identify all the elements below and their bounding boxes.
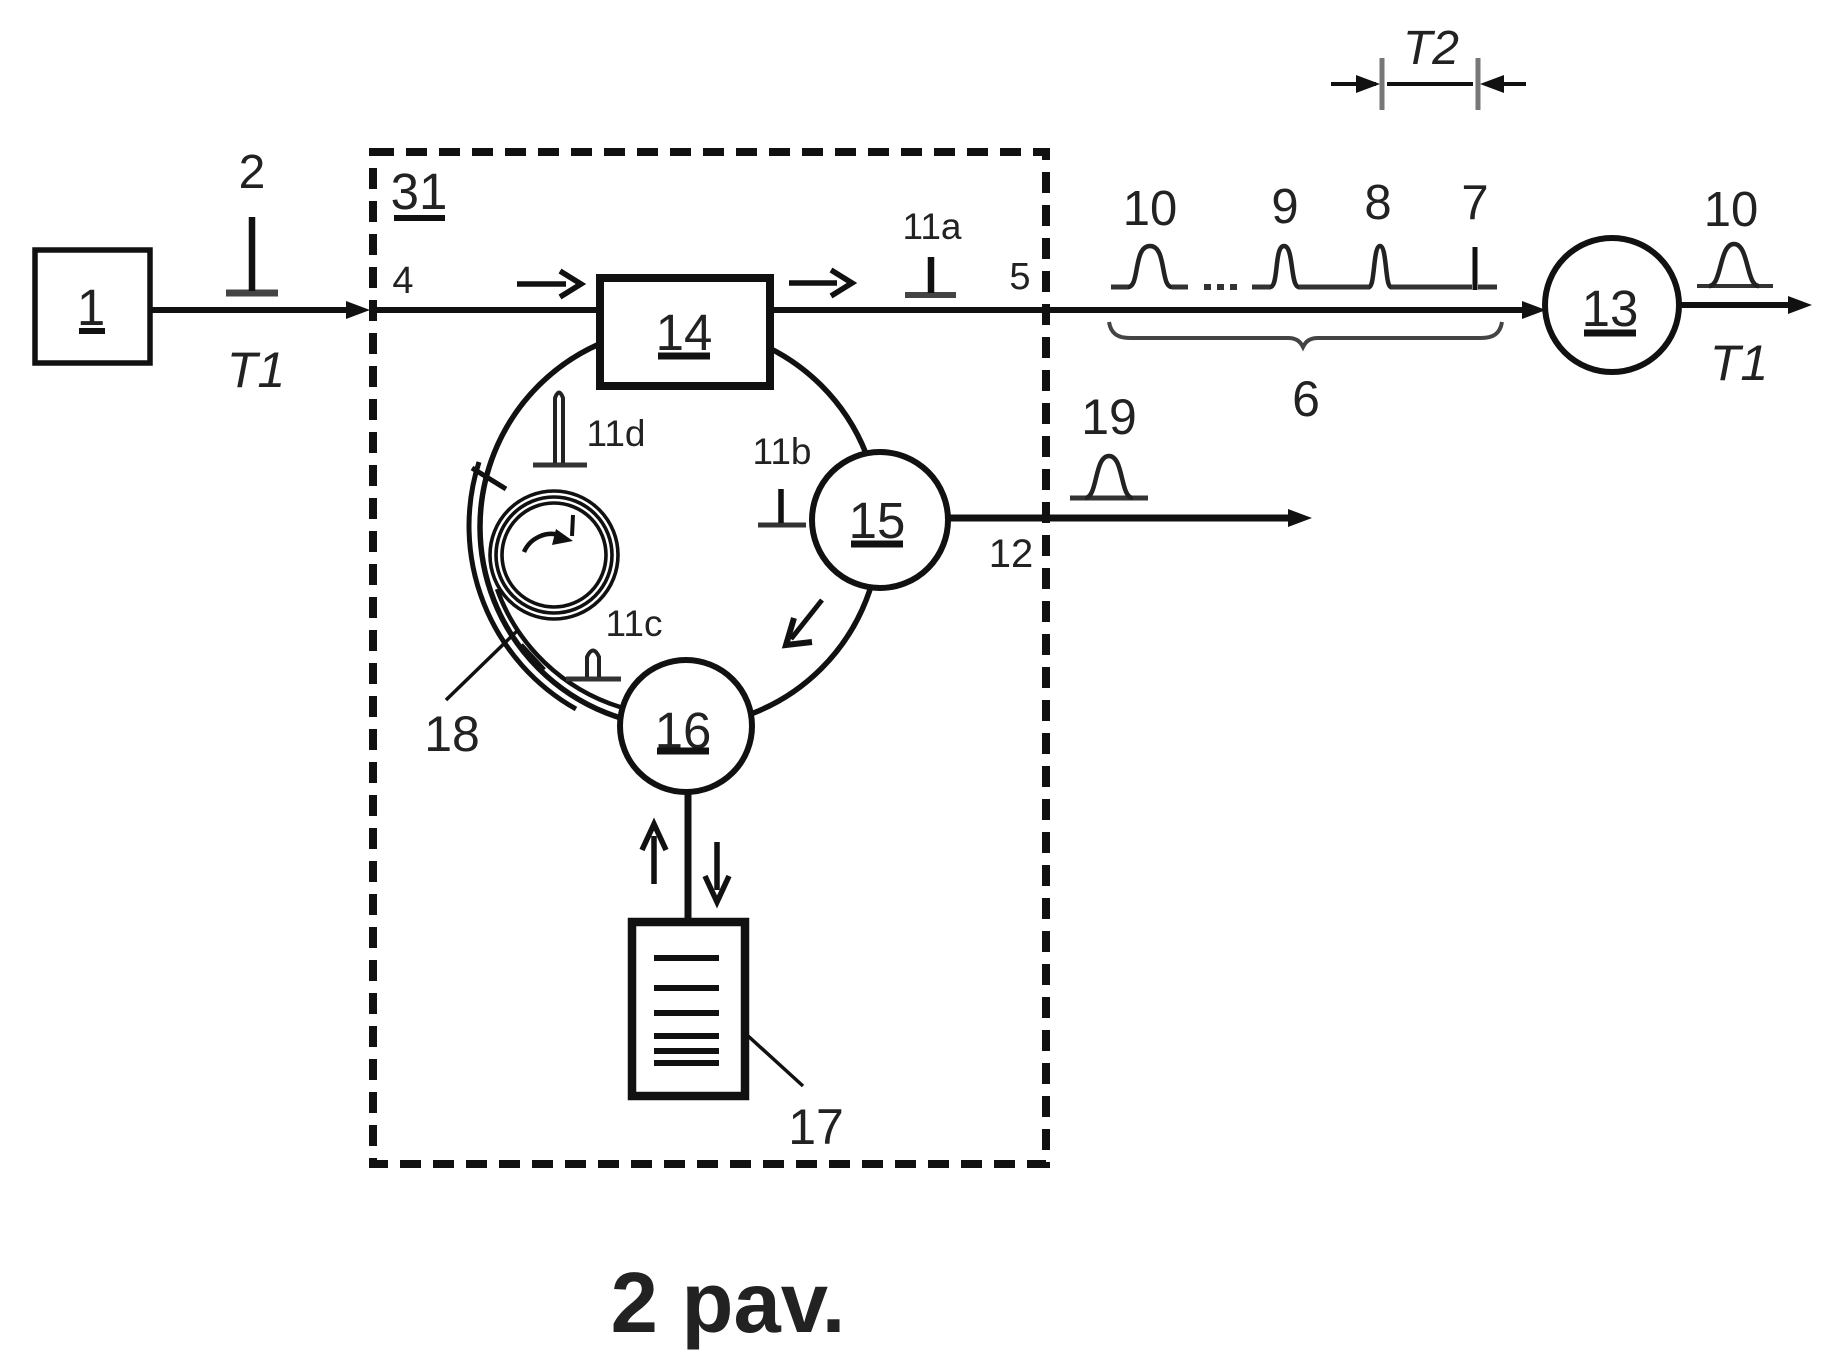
svg-text:12: 12	[989, 532, 1034, 576]
svg-text:11d: 11d	[587, 413, 646, 454]
svg-text:15: 15	[849, 492, 906, 549]
svg-text:18: 18	[424, 706, 480, 762]
svg-text:14: 14	[656, 304, 713, 361]
svg-text:6: 6	[1292, 371, 1320, 427]
svg-text:T1: T1	[1710, 335, 1768, 391]
svg-text:13: 13	[1582, 280, 1639, 337]
svg-text:9: 9	[1271, 180, 1298, 234]
svg-text:2: 2	[239, 146, 266, 199]
svg-text:10: 10	[1123, 182, 1178, 236]
svg-text:11a: 11a	[903, 206, 962, 247]
svg-text:7: 7	[1461, 176, 1488, 230]
svg-text:11b: 11b	[753, 431, 812, 472]
svg-text:10: 10	[1704, 183, 1759, 237]
svg-text:8: 8	[1364, 176, 1391, 230]
svg-text:T1: T1	[227, 342, 285, 398]
svg-text:19: 19	[1081, 389, 1137, 445]
svg-text:31: 31	[391, 163, 448, 220]
svg-text:5: 5	[1009, 256, 1030, 298]
svg-text:4: 4	[392, 260, 413, 302]
svg-text:17: 17	[788, 1099, 844, 1155]
svg-text:1: 1	[77, 279, 105, 336]
svg-text:11c: 11c	[606, 603, 663, 644]
svg-text:T2: T2	[1403, 22, 1459, 75]
svg-text:2 pav.: 2 pav.	[611, 1256, 846, 1351]
